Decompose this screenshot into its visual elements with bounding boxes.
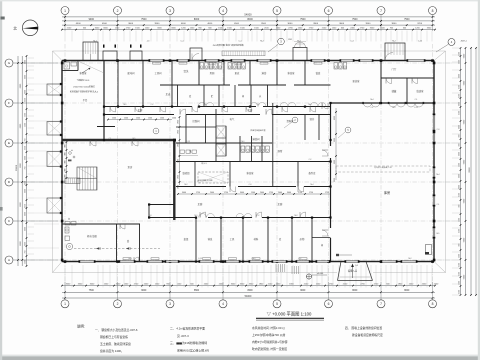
- wall wing partition A: [380, 61, 382, 104]
- svg-text:2250: 2250: [24, 98, 26, 102]
- svg-text:3000: 3000: [458, 102, 460, 106]
- shower stalls mid: [241, 146, 245, 152]
- svg-text:2100: 2100: [458, 193, 460, 197]
- wall corridor2 top: [176, 186, 226, 188]
- svg-text:B-5: B-5: [133, 138, 136, 140]
- svg-text:C-1: C-1: [180, 41, 183, 43]
- grid line 1 vertical: [64, 44, 66, 282]
- svg-text:M-4: M-4: [308, 104, 311, 106]
- svg-text:三、 ▆▆为316防爆墙,防爆特: 三、 ▆▆为316防爆墙,防爆特: [170, 341, 207, 345]
- dimension chain left overall: [17, 56, 19, 266]
- svg-text:3000: 3000: [334, 178, 336, 182]
- svg-text:设备入口: 设备入口: [348, 269, 358, 273]
- dimension line top half bays: [62, 24, 435, 26]
- grid bubble row E left: [5, 139, 13, 147]
- svg-text:1750: 1750: [269, 192, 273, 194]
- wc stalls top mid B: [228, 63, 232, 70]
- grid line row 1 horizontal: [14, 62, 452, 64]
- entrance bay top with double door: [293, 48, 307, 61]
- dimension extension lines right: [452, 47, 461, 49]
- svg-text:9000: 9000: [141, 290, 147, 292]
- svg-text:3000: 3000: [24, 227, 26, 231]
- partition center 10: [318, 115, 320, 141]
- dimension chain right fine: [460, 48, 462, 295]
- page edge smudge top: [0, 0, 480, 1]
- svg-text:3000: 3000: [24, 60, 26, 64]
- dimension line top overall 54000: [62, 16, 435, 18]
- wall left wing vertical: [103, 61, 105, 141]
- wall mid block B: [176, 161, 331, 163]
- svg-text:3900: 3900: [154, 23, 160, 25]
- vent shaft A: [216, 126, 226, 138]
- svg-text:吹内铝瓷砖缝, 咛砖一定划区: 吹内铝瓷砖缝, 咛砖一定划区: [252, 347, 287, 351]
- equipment entrance ramp: [338, 262, 342, 281]
- partition top band lower 5: [250, 85, 252, 107]
- grid bubble 4 top: [219, 7, 227, 15]
- grid bubble 5 bottom: [276, 282, 278, 300]
- north arrow: [22, 20, 38, 36]
- page edge mark top-left: [1, 17, 5, 20]
- svg-text:C-2: C-2: [309, 159, 312, 161]
- svg-text:库房: 库房: [384, 190, 390, 195]
- svg-text:C-2: C-2: [151, 104, 154, 106]
- left wing wc fixtures: [64, 62, 70, 69]
- partition center 9: [304, 115, 306, 141]
- svg-text:1750: 1750: [196, 192, 200, 194]
- svg-text:1750: 1750: [298, 192, 302, 194]
- left wall bay 3: [47, 152, 62, 167]
- svg-text:4000: 4000: [181, 23, 187, 25]
- partition bottom band 3: [242, 218, 244, 262]
- partition top band lower 4: [234, 85, 236, 107]
- svg-text:1500: 1500: [112, 117, 116, 119]
- dimension chain left fine: [26, 56, 28, 266]
- svg-text:B-5: B-5: [393, 107, 396, 109]
- wall blast horizontal: [62, 139, 176, 141]
- svg-text:C-15: C-15: [186, 141, 190, 143]
- partition center 12: [229, 162, 231, 187]
- svg-text:900: 900: [64, 175, 66, 178]
- svg-text:1800: 1800: [177, 143, 179, 147]
- svg-text:900: 900: [64, 153, 66, 156]
- svg-text:8000: 8000: [194, 18, 200, 21]
- partition top band 4: [276, 61, 278, 86]
- svg-text:3700: 3700: [417, 23, 423, 25]
- wall storeroom vertical: [330, 103, 332, 146]
- bay top C with door: [190, 48, 202, 61]
- svg-text:7: 7: [380, 302, 382, 306]
- svg-text:C-1: C-1: [371, 107, 374, 109]
- grid line row 5 horizontal: [14, 220, 452, 222]
- partition top band lower 1: [177, 85, 179, 107]
- svg-text:30000: 30000: [16, 164, 18, 171]
- wall blast vertical: [173, 140, 175, 220]
- svg-text:6: 6: [328, 302, 330, 306]
- svg-text:锋设备和货应依称栋尺定: 锋设备和货应依称栋尺定: [352, 333, 383, 337]
- dimension line bottom bays: [62, 291, 435, 293]
- svg-text:750: 750: [24, 139, 26, 142]
- svg-text:M-2: M-2: [260, 41, 263, 43]
- svg-text:900: 900: [64, 169, 66, 172]
- svg-text:见 -007-3: 见 -007-3: [177, 334, 189, 338]
- partition top band tall 1: [117, 61, 119, 107]
- partition top band lower 2: [203, 85, 205, 107]
- storeroom corner marks: [425, 252, 429, 254]
- svg-text:7500: 7500: [89, 290, 95, 292]
- wall wing horizontal: [381, 77, 434, 79]
- detail bubble top right: [448, 39, 455, 46]
- detail bubble interior B: [153, 128, 159, 134]
- partition top band 2: [223, 61, 225, 86]
- washroom fixtures: [65, 222, 70, 226]
- svg-text:B-5: B-5: [437, 233, 440, 235]
- casement window arcs corridors: [198, 103, 206, 107]
- grid bubble 2 top: [114, 7, 122, 15]
- svg-text:1500: 1500: [458, 254, 460, 258]
- equipment hatch left wall: [65, 178, 80, 184]
- partition center 5: [239, 136, 241, 162]
- svg-text:3000: 3000: [458, 74, 460, 78]
- wall center top row: [160, 84, 230, 86]
- svg-text:4500: 4500: [234, 23, 240, 25]
- svg-text:M-1: M-1: [123, 104, 126, 106]
- exterior wall top: [62, 60, 434, 62]
- svg-text:1500: 1500: [24, 123, 26, 127]
- grid bubble 2 bottom: [117, 282, 119, 300]
- svg-text:3000: 3000: [24, 189, 26, 193]
- svg-text:J509-1: J509-1: [460, 41, 467, 43]
- svg-text:内粉3寸4号除通风井+与炉砖: 内粉3寸4号除通风井+与炉砖: [252, 340, 288, 344]
- svg-text:上250 炉砖中场净700 以前: 上250 炉砖中场净700 以前: [252, 333, 285, 337]
- svg-text:4500: 4500: [76, 23, 82, 25]
- interior dimension chain storeroom: [335, 108, 337, 180]
- svg-text:C-15: C-15: [198, 258, 202, 260]
- equipment dashed rect mid: [198, 172, 228, 183]
- svg-text:C-3: C-3: [149, 215, 152, 217]
- svg-text:900: 900: [458, 144, 460, 147]
- stair bay top-right: [385, 43, 405, 61]
- partition center 7: [261, 136, 263, 162]
- small symbols left room: [69, 152, 72, 155]
- svg-text:2100: 2100: [458, 290, 460, 294]
- svg-text:6: 6: [328, 9, 330, 13]
- svg-text:3000: 3000: [458, 125, 460, 129]
- svg-text:1500: 1500: [458, 163, 460, 167]
- grid line row 4 horizontal: [14, 181, 452, 183]
- svg-text:2250: 2250: [24, 181, 26, 185]
- casement window arcs wing: [364, 103, 372, 107]
- page edge smudge bottom: [0, 356, 480, 360]
- svg-text:E: E: [8, 141, 10, 145]
- page edge mark left-mid: [0, 207, 3, 211]
- grid line 3 vertical: [169, 44, 171, 282]
- grid line 6 vertical: [328, 44, 330, 282]
- partition center 11: [194, 162, 196, 187]
- partition center 2: [205, 115, 207, 144]
- dimension extension lines left: [28, 57, 35, 59]
- canopy hatch top: [222, 51, 265, 56]
- svg-text:1500: 1500: [136, 117, 140, 119]
- left wall bay 1: [47, 84, 62, 95]
- svg-text:8000: 8000: [404, 290, 410, 292]
- wall corridor1 top: [104, 106, 192, 108]
- svg-text:1500: 1500: [24, 113, 26, 117]
- detail bubble top middle: [278, 38, 285, 45]
- detail bubble interior C: [345, 127, 351, 133]
- dimension chain left bays: [21, 56, 23, 266]
- svg-text:3000: 3000: [287, 192, 291, 194]
- grid line row 3 horizontal: [14, 142, 452, 144]
- svg-text:C-3: C-3: [257, 104, 260, 106]
- svg-text:7500: 7500: [141, 18, 147, 21]
- wall corridor1 bottom: [104, 114, 174, 116]
- svg-text:钢窗框已上与有窗宽炼: 钢窗框已上与有窗宽炼: [100, 335, 128, 339]
- ramp arrow left wing: [82, 68, 90, 73]
- svg-text:7: 7: [380, 9, 382, 13]
- svg-text:1750: 1750: [309, 192, 313, 194]
- bay top A: [103, 51, 117, 61]
- wall left wing top room: [62, 70, 78, 72]
- svg-text:2: 2: [117, 9, 119, 13]
- svg-text:3: 3: [169, 302, 171, 306]
- svg-text:2000: 2000: [278, 192, 282, 194]
- svg-text:3000: 3000: [458, 152, 460, 156]
- svg-text:1500: 1500: [124, 117, 128, 119]
- svg-text:一、 钢窗框大小及位置见兰-007-6: 一、 钢窗框大小及位置见兰-007-6: [95, 328, 138, 332]
- svg-text:7500: 7500: [300, 18, 306, 21]
- svg-text:二、 4.2m窗及形通风管平面: 二、 4.2m窗及形通风管平面: [170, 327, 205, 331]
- svg-text:3: 3: [169, 9, 171, 13]
- partition center 13: [297, 162, 299, 187]
- svg-text:C-1: C-1: [415, 99, 418, 101]
- svg-text:2100: 2100: [458, 52, 460, 56]
- interior dimension chain left room: [66, 142, 68, 178]
- radiator marks: [153, 62, 161, 64]
- svg-text:5: 5: [276, 302, 278, 306]
- grid bubble 3 top: [166, 7, 174, 15]
- svg-text:900: 900: [64, 181, 66, 184]
- partition top band tall 3: [171, 61, 173, 107]
- svg-text:9000: 9000: [300, 290, 306, 292]
- svg-text:3000: 3000: [24, 242, 26, 246]
- svg-text:4: 4: [222, 9, 224, 13]
- partition top band 3: [249, 61, 251, 86]
- exterior wall right: [433, 61, 435, 262]
- grid bubble 6 bottom: [328, 282, 330, 300]
- svg-text:3900: 3900: [313, 23, 319, 25]
- grid line 5 vertical: [276, 44, 278, 282]
- svg-text:4: 4: [222, 302, 224, 306]
- svg-text:1500: 1500: [458, 281, 460, 285]
- svg-text:900: 900: [458, 135, 460, 138]
- partition top band lower 6: [267, 85, 269, 107]
- svg-text:8000: 8000: [247, 18, 253, 21]
- svg-text:C-3: C-3: [437, 129, 440, 131]
- svg-text:四、 围墙上设备烽锋窗间位置: 四、 围墙上设备烽锋窗间位置: [345, 326, 382, 330]
- svg-text:C-15: C-15: [418, 41, 422, 43]
- wc stalls top mid A: [200, 63, 204, 70]
- wall corridor2 bottom: [149, 217, 196, 219]
- partition bottom band 6: [311, 218, 313, 262]
- wall center stub: [176, 126, 216, 128]
- wall left wing stub: [97, 126, 115, 128]
- dimension line bottom overall: [62, 297, 435, 299]
- svg-text:3000: 3000: [24, 75, 26, 79]
- interior dimension chain vertical center: [179, 117, 181, 185]
- svg-text:M-2: M-2: [392, 41, 395, 43]
- svg-text:2100: 2100: [458, 263, 460, 267]
- svg-text:3000: 3000: [24, 90, 26, 94]
- svg-text:7500: 7500: [352, 18, 358, 21]
- page edge smudge left: [0, 0, 2, 360]
- dimension chain right bays: [465, 48, 467, 295]
- svg-text:1500: 1500: [148, 117, 152, 119]
- interior dimension chain corridor2: [178, 193, 330, 195]
- partition bottom band 5: [291, 218, 293, 262]
- svg-text:54000: 54000: [244, 13, 252, 17]
- svg-text:3000: 3000: [182, 192, 186, 194]
- equipment rect storeroom right: [426, 245, 432, 255]
- svg-text:3000: 3000: [24, 212, 26, 216]
- svg-text:9-3: 9-3: [355, 265, 358, 267]
- svg-text:M-1: M-1: [241, 141, 244, 143]
- grid bubble 5 top: [273, 7, 281, 15]
- svg-text:±0.000: ±0.000: [317, 273, 324, 275]
- grid line 8 vertical: [432, 44, 434, 282]
- grid bubble row G left: [5, 59, 13, 67]
- washroom wall horizontal: [62, 223, 140, 225]
- svg-text:1500: 1500: [160, 117, 164, 119]
- svg-text:2: 2: [117, 302, 119, 306]
- svg-text:1500: 1500: [251, 192, 255, 194]
- svg-text:3000: 3000: [334, 160, 336, 164]
- svg-text:750: 750: [24, 251, 26, 254]
- partition top band 5: [304, 61, 306, 86]
- apron outline: [52, 51, 54, 273]
- partition top band tall 2: [142, 61, 144, 107]
- svg-text:1800: 1800: [177, 175, 179, 179]
- partition top band lower 3: [218, 85, 220, 107]
- partition center 8: [272, 103, 274, 187]
- svg-text:C-1: C-1: [437, 204, 440, 206]
- svg-text:8500: 8500: [194, 290, 200, 292]
- svg-text:3000: 3000: [334, 138, 336, 142]
- svg-text:C-1: C-1: [238, 41, 241, 43]
- grid bubble 7 bottom: [380, 282, 382, 300]
- wall mid block A: [176, 142, 272, 144]
- svg-text:2000: 2000: [210, 192, 214, 194]
- door arcs: [110, 107, 116, 113]
- svg-text:1750: 1750: [325, 192, 329, 194]
- grid bubble row D left: [5, 178, 13, 186]
- washroom partition B: [139, 224, 141, 262]
- svg-text:J-3: J-3: [147, 41, 150, 43]
- svg-text:1800: 1800: [177, 185, 179, 189]
- svg-text:5: 5: [276, 9, 278, 13]
- svg-text:3600: 3600: [128, 23, 134, 25]
- bay ticks above: [103, 45, 105, 48]
- partition center 6: [251, 136, 253, 162]
- svg-text:3000: 3000: [240, 192, 244, 194]
- partition center 3: [215, 109, 217, 162]
- svg-text:C-3: C-3: [249, 184, 252, 186]
- windows top wall: [150, 60, 163, 62]
- grid bubble 1 bottom: [64, 282, 66, 300]
- partition bottom band 4: [267, 218, 269, 262]
- dimension line top bays: [62, 20, 435, 22]
- svg-text:7500: 7500: [404, 18, 410, 21]
- washroom partition A: [116, 224, 118, 262]
- svg-text:1: 1: [64, 9, 66, 13]
- column blobs: [64, 59, 67, 62]
- svg-text:北: 北: [13, 26, 17, 31]
- partition top band 1: [198, 61, 200, 86]
- dimension line top fine: [62, 29, 435, 31]
- grid line row 6 horizontal: [14, 259, 452, 261]
- wc stalls wing: [334, 63, 338, 70]
- svg-text:8: 8: [432, 302, 434, 306]
- svg-text:3900: 3900: [365, 23, 371, 25]
- stair interior left room: [77, 167, 97, 190]
- partition center 1: [185, 115, 187, 144]
- svg-text:2100: 2100: [458, 111, 460, 115]
- grid bubble 3 bottom: [169, 282, 171, 300]
- grid bubble 8 top: [429, 7, 437, 15]
- svg-text:采用MU10实心砖上砌,W5: 采用MU10实心砖上砌,W5: [177, 348, 209, 352]
- partition storeroom side room: [312, 237, 331, 239]
- svg-text:1500: 1500: [24, 260, 26, 264]
- svg-text:9000: 9000: [89, 18, 95, 21]
- svg-text:3000: 3000: [458, 185, 460, 189]
- svg-text:4500: 4500: [102, 23, 108, 25]
- svg-text:1800: 1800: [177, 159, 179, 163]
- svg-text:C-15: C-15: [414, 107, 418, 109]
- svg-text:3800: 3800: [391, 23, 397, 25]
- svg-text:2100: 2100: [458, 272, 460, 276]
- svg-text:3600: 3600: [339, 23, 345, 25]
- svg-text:1750: 1750: [224, 192, 228, 194]
- svg-text:水风井窗时间; 咛砖1:00 以: 水风井窗时间; 咛砖1:00 以: [252, 326, 285, 330]
- left wall bay 2: [47, 122, 62, 136]
- vent shaft B: [216, 144, 226, 156]
- svg-text:2250: 2250: [24, 146, 26, 150]
- grid bubble 7 top: [377, 7, 385, 15]
- svg-text:4000: 4000: [207, 23, 213, 25]
- svg-text:6000: 6000: [334, 116, 336, 120]
- svg-text:2100: 2100: [458, 229, 460, 233]
- grid bubble 8 bottom: [432, 282, 434, 300]
- svg-text:30000: 30000: [469, 166, 471, 172]
- svg-text:2250: 2250: [24, 204, 26, 208]
- svg-text:M-2: M-2: [203, 104, 206, 106]
- wc sinks mid: [180, 150, 185, 153]
- svg-text:J201: J201: [288, 39, 292, 41]
- svg-text:8: 8: [432, 9, 434, 13]
- svg-text:3600: 3600: [287, 23, 293, 25]
- svg-text:说明:: 说明:: [77, 324, 85, 329]
- wall left stub corridor2: [149, 204, 174, 206]
- svg-text:3000: 3000: [24, 156, 26, 160]
- grid line row 2 horizontal: [14, 102, 452, 104]
- grid bubble row C left: [5, 217, 13, 225]
- svg-text:54000: 54000: [245, 295, 252, 298]
- svg-text:2100: 2100: [458, 94, 460, 98]
- stair bay top-left: [83, 42, 98, 61]
- grid line 2 vertical: [117, 44, 119, 282]
- grid bubble row F left: [5, 99, 13, 107]
- svg-text:F: F: [8, 101, 10, 105]
- grid line 7 vertical: [380, 44, 382, 282]
